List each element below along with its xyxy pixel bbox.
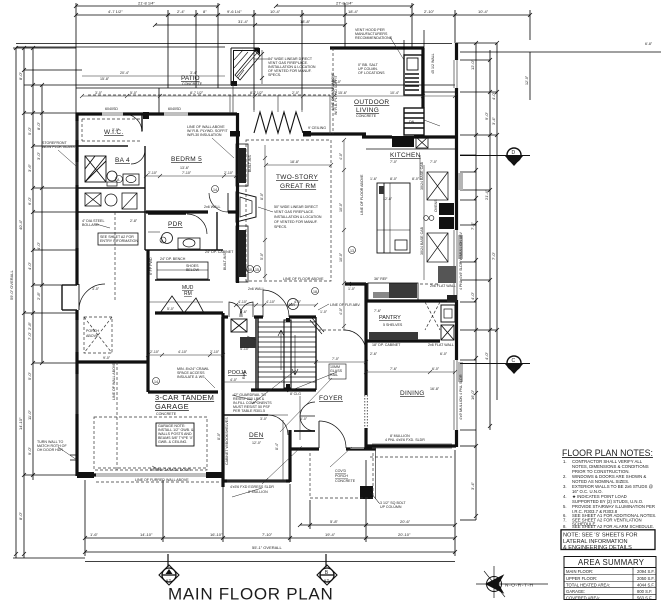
svg-text:8'-0": 8'-0" xyxy=(18,511,23,520)
kitchen counter front line xyxy=(366,148,455,150)
svg-text:2'-10": 2'-10" xyxy=(148,171,158,175)
bottom dim row1 xyxy=(300,524,455,526)
patio fireplace note xyxy=(268,57,316,77)
svg-text:W/R-30 INSULATION: W/R-30 INSULATION xyxy=(187,133,222,137)
svg-text:10'-4": 10'-4" xyxy=(390,91,400,95)
shower BA4 xyxy=(85,156,106,182)
svg-text:LINE OF FURRED WALL ABOVE: LINE OF FURRED WALL ABOVE xyxy=(135,478,189,482)
note box xyxy=(561,530,655,550)
left wall jog lines xyxy=(70,454,77,456)
sink PDR xyxy=(178,238,200,249)
hall wall above foyer xyxy=(345,282,366,285)
top wall bedroom block seg2 xyxy=(123,112,164,115)
svg-text:LIVING: LIVING xyxy=(356,107,379,114)
patio corner fireplace xyxy=(231,48,268,85)
top right extension lines xyxy=(460,59,490,61)
dining west wall dotted xyxy=(365,395,368,430)
svg-text:18'-8": 18'-8" xyxy=(300,19,311,24)
svg-text:MAIN FLOOR:: MAIN FLOOR: xyxy=(566,569,593,574)
bbq grill stripes xyxy=(405,74,419,90)
svg-text:21'-4": 21'-4" xyxy=(484,189,489,200)
ticks top row1 xyxy=(74,4,414,8)
porch slab line xyxy=(310,449,376,499)
svg-text:CONCRETE: CONCRETE xyxy=(335,479,356,483)
svg-text:MAIN FLOOR PLAN: MAIN FLOOR PLAN xyxy=(168,585,333,600)
svg-text:RAIL: RAIL xyxy=(242,371,246,379)
svg-text:N-O-R-T-H: N-O-R-T-H xyxy=(505,583,534,589)
top right vertical xyxy=(529,52,531,100)
kitchen island xyxy=(377,183,410,253)
WIC shelves dashed xyxy=(82,118,140,120)
svg-text:PORCH: PORCH xyxy=(86,329,99,333)
ovens black xyxy=(439,203,454,215)
north arrow xyxy=(476,566,548,598)
svg-text:GWB. & CEILING.: GWB. & CEILING. xyxy=(158,440,187,444)
extra diagonal leaders bottom xyxy=(232,372,380,504)
den right wall xyxy=(288,430,291,482)
pooja double doors xyxy=(229,302,242,317)
svg-text:10'-4": 10'-4" xyxy=(270,9,281,14)
patio dim line xyxy=(82,95,455,97)
svg-text:4'-10": 4'-10" xyxy=(238,300,248,304)
stair hall door xyxy=(263,290,289,317)
svg-text:1'-6": 1'-6" xyxy=(370,177,378,181)
hall dim chain xyxy=(236,304,316,306)
svg-text:3'-4": 3'-4" xyxy=(470,481,475,490)
svg-text:5'-0": 5'-0" xyxy=(130,91,138,95)
mud dim chain xyxy=(148,301,223,303)
svg-text:2'-6": 2'-6" xyxy=(370,352,378,356)
stairs up arrows xyxy=(278,330,284,370)
svg-text:CABINET W/BOOKSHELVES: CABINET W/BOOKSHELVES xyxy=(225,417,229,465)
dining bottom windows xyxy=(372,443,452,445)
svg-text:3'-0": 3'-0" xyxy=(260,417,268,421)
svg-text:PDR: PDR xyxy=(168,221,183,228)
stairs slant break xyxy=(310,318,324,334)
svg-text:FOYER: FOYER xyxy=(319,395,343,402)
svg-text:WDW FLOK GLASS: WDW FLOK GLASS xyxy=(42,145,75,149)
svg-text:COVERED AREA:: COVERED AREA: xyxy=(566,596,600,600)
top dim row2 xyxy=(76,14,530,16)
glass rail note box xyxy=(329,364,346,379)
svg-text:2x6 WALL: 2x6 WALL xyxy=(204,205,220,209)
leader den window xyxy=(262,478,268,484)
right wall window top xyxy=(453,60,455,88)
svg-text:COV'D: COV'D xyxy=(335,469,346,473)
pooja left wall xyxy=(221,317,223,390)
den hall double swing doors xyxy=(300,402,315,416)
leader 36 ref xyxy=(347,282,367,286)
left dim col overall xyxy=(15,48,17,558)
great room vertical chain xyxy=(343,140,345,330)
top dim row3 xyxy=(155,24,345,26)
stairs right wall xyxy=(315,317,317,390)
svg-text:SPECS.: SPECS. xyxy=(274,225,287,229)
PDR right wall xyxy=(216,212,218,250)
svg-text:CONCRETE: CONCRETE xyxy=(156,412,177,416)
svg-text:9' CEILING: 9' CEILING xyxy=(308,126,326,130)
svg-text:5'-0": 5'-0" xyxy=(27,371,32,380)
closet band bottom xyxy=(77,211,146,213)
svg-text:20'-6": 20'-6" xyxy=(400,519,411,524)
foyer entry door xyxy=(318,421,320,448)
garage top right wall xyxy=(148,390,218,393)
leader line of flr abv xyxy=(318,304,329,310)
stairs newel dots xyxy=(286,318,290,322)
svg-text:3'-6": 3'-6" xyxy=(27,163,32,172)
svg-text:2'-0": 2'-0" xyxy=(292,91,300,95)
ticks right col1 xyxy=(474,41,478,518)
svg-text:8'-0": 8'-0" xyxy=(260,192,264,200)
kitchen right rotated dims chain xyxy=(423,165,425,280)
svg-text:8'-0": 8'-0" xyxy=(217,432,221,440)
stove alcove dining xyxy=(441,305,455,322)
ticks left col2 xyxy=(22,46,26,556)
svg-text:4'-0": 4'-0" xyxy=(339,152,343,160)
leader column note xyxy=(372,494,379,503)
line of furred wall below dining xyxy=(370,456,452,458)
fireplace black blob xyxy=(253,48,260,55)
svg-text:3-CAR TANDEM: 3-CAR TANDEM xyxy=(155,393,214,402)
svg-text:OUTDOOR: OUTDOOR xyxy=(354,99,389,106)
leader from vent hood note xyxy=(390,37,404,60)
section marker B xyxy=(325,554,327,567)
svg-text:6'-0": 6'-0" xyxy=(432,367,440,371)
svg-text:ABOVE: ABOVE xyxy=(86,334,99,338)
svg-text:3'-0": 3'-0" xyxy=(36,151,41,160)
BA4 right wall xyxy=(144,146,146,250)
patio slab left edge xyxy=(158,88,160,113)
stairs treads xyxy=(258,322,316,382)
svg-text:KITCHEN: KITCHEN xyxy=(390,152,421,159)
svg-text:2'-10": 2'-10" xyxy=(150,350,160,354)
line of furred wall below garage xyxy=(96,481,220,483)
svg-text:6'-0": 6'-0" xyxy=(300,417,308,421)
svg-text:OVENS: OVENS xyxy=(434,199,438,212)
den bottom wall xyxy=(223,479,290,482)
svg-text:7'-0": 7'-0" xyxy=(390,160,398,164)
den dim vertical xyxy=(282,420,284,480)
entry centerline dashed xyxy=(114,212,116,300)
right dim col2 xyxy=(489,50,491,430)
svg-text:BUILT-INS: BUILT-INS xyxy=(223,252,227,270)
bedroom bottom wall xyxy=(146,210,208,213)
den bottom windows xyxy=(227,479,286,481)
kitchen vertical chain xyxy=(419,155,421,180)
svg-text:2'-10": 2'-10" xyxy=(224,171,234,175)
svg-text:14'-10": 14'-10" xyxy=(18,417,23,430)
mud bottom wall xyxy=(155,311,223,314)
svg-text:16'-8": 16'-8" xyxy=(430,387,440,391)
svg-text:2'-8": 2'-8" xyxy=(36,291,41,300)
svg-text:2'-10": 2'-10" xyxy=(424,9,435,14)
svg-text:15'-8": 15'-8" xyxy=(100,77,110,81)
svg-text:GARAGE:: GARAGE: xyxy=(566,589,585,594)
stairs left wall xyxy=(257,317,259,390)
svg-text:DINING: DINING xyxy=(400,390,425,397)
svg-text:C: C xyxy=(512,358,516,364)
patio upper dim chain xyxy=(82,75,225,77)
svg-text:7'-0": 7'-0" xyxy=(491,251,496,260)
svg-text:8'-0": 8'-0" xyxy=(18,71,23,80)
svg-text:5'-0": 5'-0" xyxy=(167,307,175,311)
svg-text:2x6 FLAT WALL: 2x6 FLAT WALL xyxy=(428,343,454,347)
svg-text:30/24 BASE CAB: 30/24 BASE CAB xyxy=(420,161,424,190)
svg-text:5.: 5. xyxy=(563,504,567,509)
mud bench xyxy=(157,262,208,279)
svg-text:ENTRY INFORMATION: ENTRY INFORMATION xyxy=(100,239,138,243)
leader crawl xyxy=(205,378,215,388)
svg-text:8": 8" xyxy=(203,9,207,14)
ticks top row3 xyxy=(153,23,347,27)
svg-text:6'-0": 6'-0" xyxy=(27,196,32,205)
svg-text:7'-10": 7'-10" xyxy=(182,171,192,175)
svg-text:LINE OF FLR ABV.: LINE OF FLR ABV. xyxy=(330,303,360,307)
right exterior wall xyxy=(455,43,458,60)
svg-text:LINE OF FLOOR ABOVE: LINE OF FLOOR ABOVE xyxy=(283,277,324,281)
svg-text:2x6 WALL: 2x6 WALL xyxy=(248,287,264,291)
WIC door arc xyxy=(124,114,142,132)
right dim col1 xyxy=(475,43,477,520)
svg-text:5'-8": 5'-8" xyxy=(330,519,339,524)
svg-text:BEDRM 5: BEDRM 5 xyxy=(171,156,202,163)
ticks bottom row1 xyxy=(298,523,457,527)
right extension lines xyxy=(456,42,497,44)
closet STOR box xyxy=(85,193,101,206)
line of wall above patio xyxy=(88,94,330,96)
svg-text:6040SD: 6040SD xyxy=(105,107,118,111)
svg-text:15: 15 xyxy=(255,268,259,272)
svg-text:7.: 7. xyxy=(563,518,567,523)
PDR door arc xyxy=(187,214,207,234)
svg-text:36" REF: 36" REF xyxy=(374,277,388,281)
svg-text:CONCRETE: CONCRETE xyxy=(356,114,377,118)
patio nook vertical to bedroom wall xyxy=(232,85,234,113)
great room left chain xyxy=(264,145,266,280)
svg-text:2'-8": 2'-8" xyxy=(130,219,138,223)
area summary table xyxy=(564,557,656,600)
svg-text:9'-0": 9'-0" xyxy=(27,446,32,455)
svg-text:9'-6 1/4": 9'-6 1/4" xyxy=(227,9,242,14)
svg-text:FLOOR PLAN NOTES:: FLOOR PLAN NOTES: xyxy=(562,448,653,458)
dining door arc from foyer xyxy=(344,330,366,352)
AA box xyxy=(122,193,137,209)
svg-text:5 SHELVES: 5 SHELVES xyxy=(383,323,403,327)
svg-text:2'-8": 2'-8" xyxy=(27,321,32,330)
top extension lines xyxy=(75,3,77,113)
svg-text:RM: RM xyxy=(184,291,192,297)
left dim col4 xyxy=(41,85,43,363)
svg-text:1'-0": 1'-0" xyxy=(348,287,356,291)
svg-text:7'-0": 7'-0" xyxy=(27,331,32,340)
garage dashed box xyxy=(94,417,207,470)
svg-text:SEE SHEET A2 FOR ALARM SCHEDUL: SEE SHEET A2 FOR ALARM SCHEDULE. xyxy=(572,524,654,529)
ticks top row2 xyxy=(74,13,532,17)
svg-text:8.: 8. xyxy=(563,524,567,529)
svg-text:9'-0": 9'-0" xyxy=(103,356,111,360)
svg-text:INSTALLATION & LOCATION: INSTALLATION & LOCATION xyxy=(274,215,322,219)
BA4 bottom wall xyxy=(77,187,145,189)
great room left wall xyxy=(236,113,239,283)
svg-text:A8: A8 xyxy=(511,366,517,371)
svg-text:UPPER FLOOR:: UPPER FLOOR: xyxy=(566,576,597,581)
window top bedroom 1 xyxy=(102,112,123,114)
svg-text:4'x5'6 FXD EGRESS SLDR: 4'x5'6 FXD EGRESS SLDR xyxy=(230,485,274,489)
wall chunk right of zigzag xyxy=(303,131,311,137)
svg-text:GARAGE: GARAGE xyxy=(155,402,189,411)
svg-text:2'-4": 2'-4" xyxy=(177,9,186,14)
right wall jamb tabs xyxy=(458,173,463,190)
svg-text:24" DP. BENCH: 24" DP. BENCH xyxy=(160,257,186,261)
wall chunk left of zigzag xyxy=(230,131,240,137)
svg-text:59'-0" OVERALL: 59'-0" OVERALL xyxy=(9,269,14,300)
svg-text:4044 S.F.: 4044 S.F. xyxy=(637,583,655,588)
garage note box xyxy=(156,423,194,446)
svg-text:2'-6": 2'-6" xyxy=(240,310,248,314)
svg-text:OF VENTED FOR MANUF.: OF VENTED FOR MANUF. xyxy=(274,220,318,224)
svg-text:3'-0": 3'-0" xyxy=(95,91,103,95)
svg-text:20'-4": 20'-4" xyxy=(120,71,130,75)
svg-text:BELOW: BELOW xyxy=(186,268,200,272)
left dim col3 xyxy=(32,48,34,480)
svg-text:BOLLARD: BOLLARD xyxy=(82,223,99,227)
DN closet outdoor living xyxy=(404,108,424,135)
PDR bottom wall xyxy=(145,249,223,251)
garage lane dashed line xyxy=(116,362,118,470)
kitchen counter outline xyxy=(368,283,418,300)
svg-text:8' MULLION: 8' MULLION xyxy=(248,490,268,494)
leader fireplace note xyxy=(258,207,273,212)
outdoor living right upper wall xyxy=(421,48,424,108)
fridge dark block xyxy=(438,266,456,283)
garage door opening xyxy=(96,473,206,475)
svg-text:12'-8": 12'-8" xyxy=(383,197,393,201)
patio nook bottom wall chunk xyxy=(231,81,237,86)
svg-text:9'-0": 9'-0" xyxy=(484,111,489,120)
svg-text:4'-0": 4'-0" xyxy=(484,351,489,360)
svg-text:10'-0": 10'-0" xyxy=(339,252,343,262)
svg-text:6'-0": 6'-0" xyxy=(440,352,448,356)
svg-text:4'-0": 4'-0" xyxy=(470,291,475,300)
dark wall chunk right of pantry xyxy=(447,295,457,302)
top dim row1 left xyxy=(76,5,218,7)
PDR top wall xyxy=(148,213,186,215)
svg-text:4'-0": 4'-0" xyxy=(491,91,496,100)
svg-text:4'-0": 4'-0" xyxy=(36,241,41,250)
garage door dashed xyxy=(98,467,206,469)
top wall bedroom block seg3 xyxy=(188,112,237,115)
svg-text:45 1/2 WALL: 45 1/2 WALL xyxy=(431,53,435,74)
svg-text:INSULATE & WS.: INSULATE & WS. xyxy=(177,375,206,379)
svg-text:4'-0": 4'-0" xyxy=(230,378,238,382)
garage top wall xyxy=(77,360,148,363)
right dim col3 xyxy=(496,43,498,400)
svg-text:LINE OF WALL ABOVE: LINE OF WALL ABOVE xyxy=(112,362,116,400)
built-in black bar lower xyxy=(238,230,246,277)
right wall sliding door great room xyxy=(453,230,455,300)
svg-text:7'-6": 7'-6" xyxy=(374,309,382,313)
ticks left col4 xyxy=(40,83,44,365)
ticks bottom overall xyxy=(83,550,457,554)
section marker D xyxy=(507,148,521,162)
svg-text:TWO-STORY: TWO-STORY xyxy=(276,174,319,181)
built-in black bar upper xyxy=(238,148,246,183)
outdoor living top wall xyxy=(330,46,424,49)
svg-text:RAIL: RAIL xyxy=(330,373,338,377)
svg-text:& ENGINEERING DETAILS: & ENGINEERING DETAILS xyxy=(563,545,632,551)
svg-text:20'-10": 20'-10" xyxy=(398,532,411,537)
svg-text:8'-7 1/2": 8'-7 1/2" xyxy=(190,91,204,95)
svg-text:13'-6": 13'-6" xyxy=(180,166,190,170)
svg-text:PORCH: PORCH xyxy=(335,474,348,478)
svg-text:2050 S.F.: 2050 S.F. xyxy=(637,576,655,581)
ticks right col2 xyxy=(488,58,492,428)
svg-text:8'-0": 8'-0" xyxy=(390,177,398,181)
svg-text:2x6 FLAT WALL: 2x6 FLAT WALL xyxy=(430,284,456,288)
bedroom door arc xyxy=(209,193,228,212)
foyer dim chain xyxy=(316,361,366,363)
svg-text:7'-10": 7'-10" xyxy=(262,532,273,537)
built-in outline upper xyxy=(236,144,248,186)
svg-text:6'-8": 6'-8" xyxy=(645,42,653,46)
BA4 door arc xyxy=(131,150,145,164)
PA circle xyxy=(105,194,117,206)
svg-text:14: 14 xyxy=(213,188,217,192)
toilet PDR xyxy=(162,233,173,244)
svg-text:3'-4": 3'-4" xyxy=(190,71,198,75)
svg-text:14'-10": 14'-10" xyxy=(140,532,153,537)
WIC bottom wall xyxy=(77,145,128,147)
door arc entry xyxy=(79,284,105,310)
kitchen bottom counter light xyxy=(373,292,389,298)
svg-text:40'-4": 40'-4" xyxy=(18,219,23,230)
svg-text:2.: 2. xyxy=(563,474,567,479)
svg-text:2'-10": 2'-10" xyxy=(210,350,220,354)
svg-text:2094 S.F.: 2094 S.F. xyxy=(637,569,655,574)
svg-text:3'-4": 3'-4" xyxy=(491,116,496,125)
island inner lines xyxy=(389,183,391,253)
pooja shrine X cabinet xyxy=(231,319,247,332)
svg-text:5'-0": 5'-0" xyxy=(260,252,264,260)
top wall bedroom block seg1 xyxy=(76,112,102,115)
outdoor living nook wall xyxy=(424,91,455,93)
kitchen X cab right of sink xyxy=(416,137,428,148)
leader from wall above note xyxy=(212,138,234,158)
mud internal bench wall xyxy=(155,279,210,281)
leader storefront xyxy=(58,150,76,166)
svg-text:A2: A2 xyxy=(324,578,330,583)
svg-text:31'-4": 31'-4" xyxy=(238,19,249,24)
dining bottom wall xyxy=(366,444,456,447)
patio upper edge1 xyxy=(76,84,455,86)
svg-text:4'-0": 4'-0" xyxy=(339,307,343,315)
svg-text:LINE OF FLOOR ABOVE: LINE OF FLOOR ABOVE xyxy=(360,174,364,215)
stairs 18R circle xyxy=(288,299,299,310)
svg-text:PER TABLE R301.5: PER TABLE R301.5 xyxy=(233,409,265,413)
svg-text:50'-0": 50'-0" xyxy=(332,80,342,84)
svg-text:DEN: DEN xyxy=(249,432,264,439)
svg-text:27'-8 1/4": 27'-8 1/4" xyxy=(336,1,353,6)
svg-text:50" WIDE LINEAR DIRECT: 50" WIDE LINEAR DIRECT xyxy=(274,205,319,209)
under stair wall xyxy=(251,388,316,391)
bottom second overall line xyxy=(85,561,455,563)
section marker A xyxy=(167,554,169,567)
great room top dim xyxy=(266,164,331,166)
porch column black xyxy=(360,486,373,499)
wall corner chunk WIC xyxy=(143,112,149,119)
great room top wall xyxy=(303,132,366,135)
svg-text:15'-6": 15'-6" xyxy=(338,91,348,95)
